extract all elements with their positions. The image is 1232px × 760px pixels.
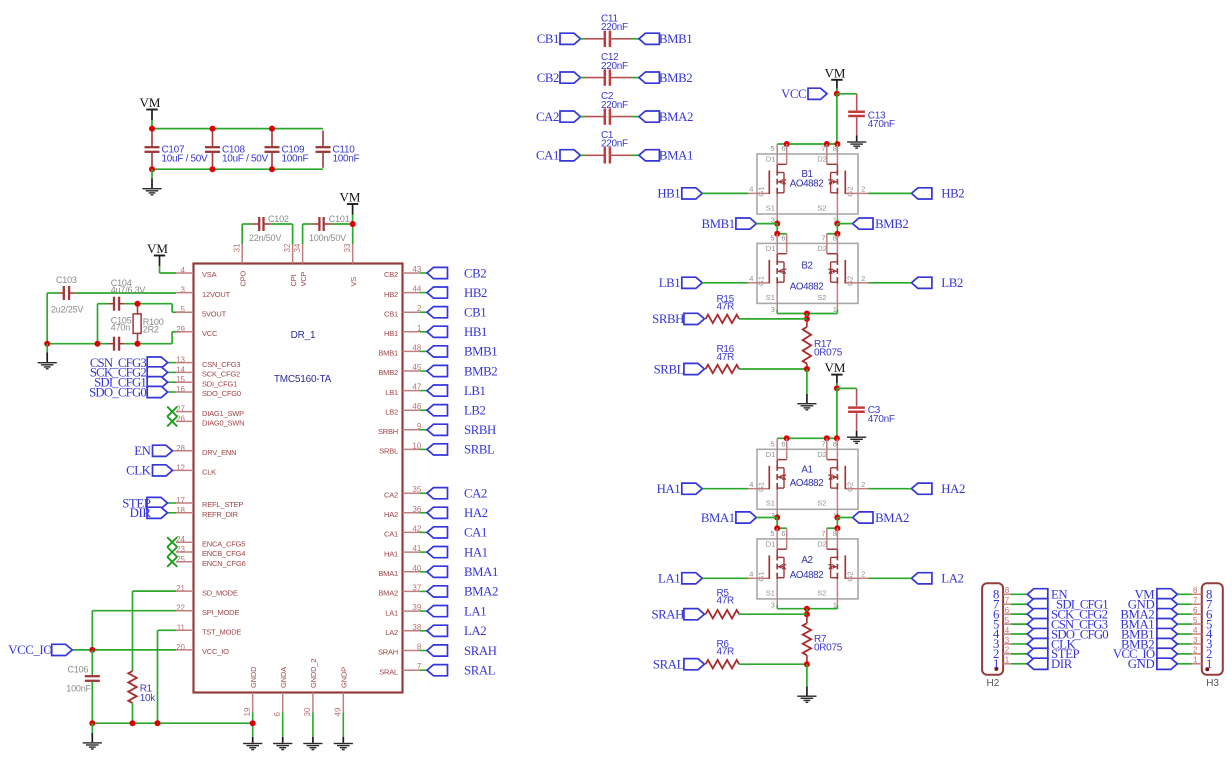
svg-text:SRAL: SRAL bbox=[379, 667, 398, 676]
svg-text:11: 11 bbox=[177, 623, 186, 632]
connector H2 body bbox=[982, 583, 1003, 675]
connector H3 body bbox=[1202, 583, 1223, 675]
svg-text:BMA2: BMA2 bbox=[659, 110, 693, 124]
global label HA2 bbox=[427, 507, 448, 518]
global label SCK_CFG2 bbox=[168, 371, 176, 373]
resistor R100 bbox=[137, 304, 139, 314]
svg-text:220nF: 220nF bbox=[601, 61, 628, 72]
global label VCC_IO bbox=[72, 649, 176, 651]
pin 41 HA1 bbox=[403, 551, 421, 553]
svg-text:48: 48 bbox=[412, 343, 421, 352]
svg-text:HA1: HA1 bbox=[657, 482, 681, 496]
svg-text:LA2: LA2 bbox=[385, 628, 398, 637]
svg-text:CLK: CLK bbox=[202, 468, 216, 477]
svg-text:10uF / 50V: 10uF / 50V bbox=[162, 153, 209, 164]
svg-text:D2: D2 bbox=[817, 540, 827, 549]
svg-text:C103: C103 bbox=[56, 275, 77, 285]
svg-text:C106: C106 bbox=[68, 664, 89, 674]
svg-text:SCK_CFG2: SCK_CFG2 bbox=[202, 370, 240, 379]
capacitor C106 bbox=[91, 650, 93, 675]
svg-text:100nF: 100nF bbox=[66, 683, 91, 693]
svg-text:6: 6 bbox=[1005, 606, 1010, 615]
pin 37 BMA2 bbox=[403, 590, 421, 592]
svg-text:BMB2: BMB2 bbox=[659, 71, 692, 85]
svg-text:6: 6 bbox=[781, 144, 785, 153]
svg-text:100nF: 100nF bbox=[333, 153, 360, 164]
svg-text:2: 2 bbox=[861, 480, 865, 489]
ground below C103 bbox=[46, 344, 48, 353]
ground below C106 bbox=[91, 723, 93, 733]
wire bottom net bbox=[47, 343, 108, 345]
transistor module B2 AO4882 bbox=[757, 243, 858, 303]
global label CB1 bbox=[560, 33, 581, 44]
pin 33 VS bbox=[352, 244, 354, 263]
svg-text:16: 16 bbox=[176, 385, 185, 394]
pin 11 TST_MODE bbox=[176, 629, 194, 631]
svg-text:CPI: CPI bbox=[289, 274, 298, 286]
svg-text:47R: 47R bbox=[717, 302, 735, 313]
svg-text:G2: G2 bbox=[846, 187, 855, 197]
global label LB1 bbox=[427, 385, 448, 396]
global label HA1 bbox=[427, 547, 448, 558]
ground below pin 19 bbox=[252, 712, 254, 737]
global label BMB2 bbox=[853, 218, 874, 229]
pin 23 ENCB_CFG4 bbox=[176, 551, 194, 553]
wire 12VOUT net bbox=[47, 292, 58, 294]
svg-text:DR_1: DR_1 bbox=[291, 330, 316, 341]
global label HB2 bbox=[911, 188, 932, 199]
svg-text:HA1: HA1 bbox=[384, 549, 398, 558]
svg-text:G1: G1 bbox=[756, 571, 765, 581]
global label CB2 bbox=[560, 72, 581, 83]
svg-text:BMA2: BMA2 bbox=[875, 511, 909, 525]
svg-text:SRAH: SRAH bbox=[464, 644, 497, 658]
svg-text:2: 2 bbox=[1005, 646, 1010, 655]
svg-text:G2: G2 bbox=[846, 276, 855, 286]
svg-text:S1: S1 bbox=[766, 293, 775, 302]
svg-text:D1: D1 bbox=[766, 244, 776, 253]
svg-text:4: 4 bbox=[181, 266, 186, 275]
wire VM to bridge A1 bbox=[836, 388, 838, 438]
resistor R15 bbox=[684, 313, 705, 324]
svg-text:38: 38 bbox=[412, 623, 421, 632]
global label SRBH bbox=[427, 424, 448, 435]
ground below C107 bbox=[151, 169, 153, 178]
svg-text:VCC: VCC bbox=[202, 329, 218, 338]
svg-text:29: 29 bbox=[176, 325, 185, 334]
no-connect X bbox=[167, 416, 177, 426]
pin 10 SRBL bbox=[403, 448, 421, 450]
svg-text:LA1: LA1 bbox=[464, 604, 486, 618]
pin 45 BMB2 bbox=[403, 370, 421, 372]
svg-text:3: 3 bbox=[1005, 636, 1010, 645]
svg-text:6: 6 bbox=[273, 712, 282, 717]
svg-text:LA2: LA2 bbox=[464, 624, 486, 638]
svg-text:D2: D2 bbox=[817, 155, 827, 164]
svg-text:7: 7 bbox=[1193, 596, 1198, 605]
svg-text:DIR: DIR bbox=[1051, 657, 1073, 671]
svg-text:18: 18 bbox=[176, 506, 185, 515]
resistor R16 bbox=[684, 363, 705, 374]
svg-text:3: 3 bbox=[771, 601, 775, 610]
wire C104 top net bbox=[97, 304, 99, 344]
svg-text:LA2: LA2 bbox=[941, 572, 963, 586]
svg-text:47: 47 bbox=[412, 383, 421, 392]
svg-text:31: 31 bbox=[233, 243, 242, 252]
junction BMA sources bbox=[774, 515, 780, 521]
svg-text:0R075: 0R075 bbox=[814, 347, 843, 358]
svg-text:BMA1: BMA1 bbox=[378, 569, 398, 578]
svg-text:LB2: LB2 bbox=[941, 276, 963, 290]
svg-text:AO4882: AO4882 bbox=[790, 570, 824, 581]
svg-text:28: 28 bbox=[176, 444, 185, 453]
global label LA1 bbox=[427, 606, 448, 617]
capacitor C107 bbox=[151, 131, 153, 147]
svg-text:VCC_IO: VCC_IO bbox=[8, 643, 52, 657]
global label LB2 bbox=[427, 405, 448, 416]
pin 5 5VOUT bbox=[176, 311, 194, 313]
global label CLK bbox=[173, 469, 177, 471]
global label CA2 bbox=[560, 111, 581, 122]
svg-text:470nF: 470nF bbox=[868, 119, 895, 130]
no-connect X bbox=[167, 407, 177, 417]
svg-text:BMB1: BMB1 bbox=[702, 217, 735, 231]
svg-text:5: 5 bbox=[181, 305, 186, 314]
capacitor C13 bbox=[837, 93, 857, 95]
ground below C3 bbox=[856, 431, 858, 437]
svg-text:ENCA_CFG5: ENCA_CFG5 bbox=[202, 539, 245, 548]
svg-text:7: 7 bbox=[821, 439, 825, 448]
svg-text:VM: VM bbox=[825, 360, 846, 375]
svg-text:8: 8 bbox=[417, 643, 422, 652]
global label BMA2 bbox=[639, 111, 660, 122]
resistor R7 bbox=[806, 614, 808, 623]
svg-text:SRBL: SRBL bbox=[464, 443, 495, 457]
svg-text:CA2: CA2 bbox=[384, 490, 398, 499]
svg-text:1: 1 bbox=[1206, 657, 1212, 671]
svg-text:0R075: 0R075 bbox=[814, 642, 843, 653]
resistor R1 bbox=[128, 671, 136, 703]
svg-text:32: 32 bbox=[283, 243, 292, 252]
junction VCC/VM bbox=[834, 91, 840, 97]
global label SRBL bbox=[427, 444, 448, 455]
svg-text:CB1: CB1 bbox=[464, 306, 486, 320]
pin 26 DIAG0_SWN bbox=[176, 420, 194, 422]
ground below pin 30 bbox=[312, 712, 314, 737]
svg-text:D2: D2 bbox=[817, 244, 827, 253]
svg-text:20: 20 bbox=[176, 643, 185, 652]
wire A1->A2 bbox=[776, 518, 778, 529]
svg-text:VSA: VSA bbox=[202, 270, 217, 279]
wire SPI_MODE bbox=[92, 610, 176, 612]
pin 25 ENCN_CFG6 bbox=[176, 561, 194, 563]
ground below R7 bbox=[806, 664, 808, 686]
svg-text:HA1: HA1 bbox=[464, 545, 488, 559]
svg-text:GND: GND bbox=[1128, 657, 1155, 671]
svg-text:13: 13 bbox=[176, 356, 185, 365]
power flag VM (VSA) bbox=[154, 255, 165, 257]
pin 28 DRV_ENN bbox=[176, 450, 194, 452]
pin 3 12VOUT bbox=[176, 292, 194, 294]
svg-text:SRBL: SRBL bbox=[654, 362, 685, 376]
svg-text:14: 14 bbox=[176, 365, 185, 374]
svg-text:TST_MODE: TST_MODE bbox=[202, 628, 241, 637]
svg-text:REFL_STEP: REFL_STEP bbox=[202, 500, 243, 509]
svg-text:100n/50V: 100n/50V bbox=[309, 233, 346, 243]
svg-text:2: 2 bbox=[1193, 646, 1198, 655]
svg-text:7: 7 bbox=[417, 662, 422, 671]
svg-text:47R: 47R bbox=[717, 595, 735, 606]
pin 49 GNDP bbox=[342, 693, 344, 713]
pin 44 HB2 bbox=[403, 292, 421, 294]
pin 42 CA1 bbox=[403, 531, 421, 533]
svg-text:VCC_IO: VCC_IO bbox=[202, 647, 229, 656]
pin 14 SCK_CFG2 bbox=[176, 371, 194, 373]
resistor R5 bbox=[684, 609, 705, 620]
svg-text:40: 40 bbox=[412, 564, 421, 573]
svg-text:SRAH: SRAH bbox=[378, 648, 398, 657]
junction bbox=[210, 126, 216, 132]
svg-text:AO4882: AO4882 bbox=[790, 179, 824, 190]
svg-text:CB2: CB2 bbox=[464, 266, 486, 280]
svg-text:SRAL: SRAL bbox=[464, 664, 496, 678]
ground below pin 6 bbox=[282, 712, 284, 737]
svg-text:TMC5160-TA: TMC5160-TA bbox=[274, 374, 332, 385]
pin 32 CPI bbox=[292, 244, 294, 263]
svg-text:4u7/6,3V: 4u7/6,3V bbox=[111, 285, 146, 295]
svg-text:8: 8 bbox=[833, 439, 837, 448]
capacitor C103 bbox=[59, 292, 64, 294]
global label CA1 bbox=[560, 150, 581, 161]
svg-text:34: 34 bbox=[293, 243, 302, 252]
global label SDI_CFG1 bbox=[168, 381, 176, 383]
wire GND bus bottom-left bbox=[92, 722, 252, 724]
svg-text:8: 8 bbox=[833, 144, 837, 153]
svg-text:SRAL: SRAL bbox=[653, 658, 685, 672]
svg-text:22n/50V: 22n/50V bbox=[249, 233, 281, 243]
svg-text:CB1: CB1 bbox=[537, 32, 559, 46]
svg-text:S1: S1 bbox=[766, 499, 775, 508]
svg-text:7: 7 bbox=[821, 529, 825, 538]
svg-text:LB1: LB1 bbox=[464, 384, 486, 398]
svg-text:VCP: VCP bbox=[299, 271, 308, 286]
power flag VM (A bridge) bbox=[831, 374, 842, 376]
svg-text:5: 5 bbox=[770, 144, 774, 153]
svg-text:HB2: HB2 bbox=[464, 286, 487, 300]
capacitor C104 bbox=[109, 303, 115, 305]
svg-text:LB2: LB2 bbox=[385, 407, 398, 416]
svg-text:CPO: CPO bbox=[238, 270, 247, 286]
svg-text:CB2: CB2 bbox=[384, 270, 398, 279]
svg-text:HB1: HB1 bbox=[464, 325, 487, 339]
svg-text:C101: C101 bbox=[329, 214, 350, 224]
svg-text:CB1: CB1 bbox=[384, 309, 398, 318]
power flag VM (top-left) bbox=[146, 109, 157, 111]
junction bbox=[350, 221, 356, 227]
svg-text:D1: D1 bbox=[766, 155, 776, 164]
svg-text:6: 6 bbox=[781, 439, 785, 448]
pin 24 ENCA_CFG5 bbox=[176, 541, 194, 543]
svg-text:44: 44 bbox=[412, 285, 421, 294]
svg-text:G1: G1 bbox=[756, 482, 765, 492]
svg-text:ENCB_CFG4: ENCB_CFG4 bbox=[202, 549, 245, 558]
svg-text:GNDD: GNDD bbox=[249, 666, 258, 688]
svg-text:SDI_CFG1: SDI_CFG1 bbox=[202, 379, 237, 388]
global label SDO_CFG0 bbox=[168, 391, 176, 393]
svg-text:12VOUT: 12VOUT bbox=[202, 290, 231, 299]
global label CA2 bbox=[427, 488, 448, 499]
svg-text:VS: VS bbox=[349, 277, 358, 287]
svg-text:BMB2: BMB2 bbox=[875, 217, 908, 231]
svg-text:CA2: CA2 bbox=[536, 110, 559, 124]
junction bbox=[149, 126, 155, 132]
svg-text:AO4882: AO4882 bbox=[790, 282, 824, 293]
svg-text:BMA2: BMA2 bbox=[464, 585, 498, 599]
svg-text:A2: A2 bbox=[801, 555, 812, 566]
svg-text:12: 12 bbox=[176, 463, 185, 472]
global label LB2 bbox=[911, 277, 932, 288]
svg-text:47R: 47R bbox=[717, 647, 735, 658]
svg-text:30: 30 bbox=[303, 707, 312, 716]
pin 6 GNDA bbox=[282, 693, 284, 713]
svg-text:BMA1: BMA1 bbox=[701, 511, 735, 525]
svg-text:SRBL: SRBL bbox=[379, 447, 398, 456]
svg-text:S2: S2 bbox=[817, 499, 826, 508]
pin 7 SRAL bbox=[403, 669, 421, 671]
svg-text:S2: S2 bbox=[817, 588, 826, 597]
svg-text:4: 4 bbox=[749, 480, 753, 489]
svg-text:8: 8 bbox=[833, 529, 837, 538]
svg-text:SRBH: SRBH bbox=[464, 423, 496, 437]
svg-text:9: 9 bbox=[417, 422, 422, 431]
svg-text:A1: A1 bbox=[801, 464, 812, 475]
svg-text:HA2: HA2 bbox=[464, 506, 488, 520]
pin 15 SDI_CFG1 bbox=[176, 381, 194, 383]
svg-text:7: 7 bbox=[821, 233, 825, 242]
pin 12 CLK bbox=[176, 469, 194, 471]
pin 18 REFR_DIR bbox=[176, 512, 194, 514]
pin 16 SDO_CFG0 bbox=[176, 391, 194, 393]
capacitor C2 bbox=[581, 116, 585, 118]
svg-text:SRAH: SRAH bbox=[651, 608, 684, 622]
global label BMB2 bbox=[639, 72, 660, 83]
svg-text:5: 5 bbox=[770, 233, 774, 242]
svg-text:CA2: CA2 bbox=[464, 487, 487, 501]
svg-text:EN: EN bbox=[134, 444, 150, 458]
svg-text:BMA1: BMA1 bbox=[464, 565, 498, 579]
pin 30 GNDD_2 bbox=[312, 693, 314, 713]
resistor R17 bbox=[806, 319, 808, 327]
capacitor C102 loop bbox=[241, 224, 243, 244]
svg-text:VM: VM bbox=[340, 190, 361, 205]
svg-text:VCC: VCC bbox=[781, 87, 806, 101]
svg-text:4: 4 bbox=[749, 569, 753, 578]
global label BMA2 bbox=[427, 586, 448, 597]
svg-text:CB2: CB2 bbox=[537, 71, 559, 85]
svg-text:VM: VM bbox=[825, 65, 846, 80]
svg-text:LB1: LB1 bbox=[385, 388, 398, 397]
wire bottom bus bbox=[152, 168, 323, 170]
svg-text:5VOUT: 5VOUT bbox=[202, 309, 227, 318]
pin 46 LB2 bbox=[403, 409, 421, 411]
pin 39 LA1 bbox=[403, 610, 421, 612]
svg-text:LB2: LB2 bbox=[464, 404, 486, 418]
svg-text:G2: G2 bbox=[846, 482, 855, 492]
svg-text:100nF: 100nF bbox=[282, 153, 309, 164]
svg-text:BMB2: BMB2 bbox=[464, 364, 497, 378]
svg-text:3: 3 bbox=[181, 286, 186, 295]
svg-text:ENCN_CFG6: ENCN_CFG6 bbox=[202, 559, 246, 568]
wire B1->B2 bbox=[776, 224, 778, 234]
svg-text:HB2: HB2 bbox=[941, 187, 964, 201]
global label LA2 bbox=[911, 573, 932, 584]
svg-text:17: 17 bbox=[176, 496, 185, 505]
svg-text:1: 1 bbox=[417, 324, 422, 333]
svg-text:45: 45 bbox=[412, 363, 421, 372]
pin 9 SRBH bbox=[403, 429, 421, 431]
svg-text:42: 42 bbox=[412, 524, 421, 533]
svg-text:DIAG1_SWP: DIAG1_SWP bbox=[202, 409, 244, 418]
global label BMA1 bbox=[427, 566, 448, 577]
capacitor C12 bbox=[581, 77, 585, 79]
svg-text:G1: G1 bbox=[756, 187, 765, 197]
svg-text:HB1: HB1 bbox=[657, 187, 680, 201]
global label EN bbox=[173, 450, 177, 452]
svg-text:7: 7 bbox=[1005, 596, 1010, 605]
pin 20 VCC_IO bbox=[176, 649, 194, 651]
svg-text:33: 33 bbox=[343, 243, 352, 252]
svg-text:S1: S1 bbox=[766, 203, 775, 212]
svg-text:C102: C102 bbox=[268, 214, 289, 224]
svg-text:VM: VM bbox=[147, 241, 168, 256]
svg-text:B2: B2 bbox=[801, 261, 812, 272]
pin 29 VCC bbox=[176, 331, 194, 333]
capacitor C101 loop bbox=[302, 224, 304, 244]
pin 4 VSA bbox=[176, 272, 194, 274]
global label BMB1 bbox=[736, 218, 757, 229]
svg-text:35: 35 bbox=[412, 485, 421, 494]
svg-text:49: 49 bbox=[334, 707, 343, 716]
power flag VM (B bridge) bbox=[831, 79, 842, 81]
svg-text:1: 1 bbox=[1193, 656, 1198, 665]
pin 47 LB1 bbox=[403, 390, 421, 392]
global label HA2 bbox=[911, 483, 932, 494]
pin 17 REFL_STEP bbox=[176, 502, 194, 504]
svg-text:2: 2 bbox=[861, 569, 865, 578]
svg-text:7: 7 bbox=[821, 144, 825, 153]
ground below pin 49 bbox=[342, 712, 344, 737]
svg-text:3: 3 bbox=[771, 511, 775, 520]
no-connect X bbox=[167, 537, 177, 547]
svg-text:37: 37 bbox=[412, 583, 421, 592]
svg-text:4: 4 bbox=[1005, 626, 1010, 635]
no-connect X bbox=[167, 547, 177, 557]
pin 34 VCP bbox=[302, 244, 304, 263]
svg-text:CLK: CLK bbox=[126, 464, 152, 478]
svg-text:HA2: HA2 bbox=[384, 510, 398, 519]
svg-text:DIR: DIR bbox=[130, 506, 152, 520]
svg-text:3: 3 bbox=[771, 305, 775, 314]
svg-text:DRV_ENN: DRV_ENN bbox=[202, 448, 236, 457]
svg-text:470n: 470n bbox=[111, 323, 130, 333]
svg-text:LA1: LA1 bbox=[385, 608, 398, 617]
wire A1 drain bus bbox=[777, 437, 837, 439]
svg-text:220nF: 220nF bbox=[601, 100, 628, 111]
global label HB1 bbox=[682, 188, 703, 199]
svg-text:GNDP: GNDP bbox=[340, 667, 349, 688]
pin 22 SPI_MODE bbox=[176, 610, 194, 612]
svg-text:H3: H3 bbox=[1206, 678, 1219, 689]
